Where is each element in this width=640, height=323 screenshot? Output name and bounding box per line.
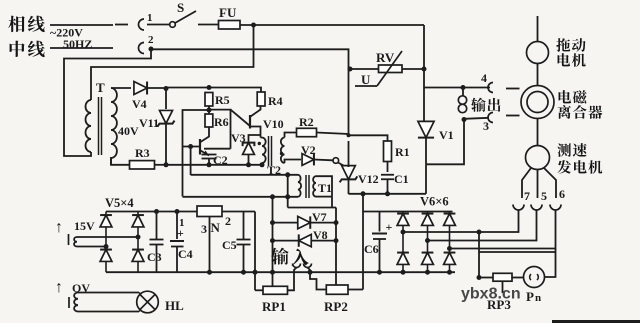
svg-text:C3: C3 <box>147 250 162 264</box>
wire phase lead <box>50 24 113 26</box>
svg-text:HL: HL <box>165 298 184 313</box>
varistor RV <box>379 65 403 73</box>
wire RP3 left lead <box>479 277 493 279</box>
svg-text:5: 5 <box>541 189 547 203</box>
svg-text:n: n <box>535 292 541 304</box>
svg-text:RP2: RP2 <box>324 299 348 314</box>
diode V6 upper 1 <box>402 212 404 215</box>
bridge V5 col1 <box>105 212 107 216</box>
diode V5 upper2 <box>137 212 139 216</box>
svg-text:↑: ↑ <box>55 219 63 236</box>
node rail1-V11 <box>164 162 169 167</box>
wire C2 to rail1 <box>208 159 210 166</box>
wire RP3 to Pn <box>512 277 524 279</box>
resistor R2 <box>297 128 317 136</box>
clutch lead dash bottom <box>506 115 520 117</box>
capacitor C1 <box>381 174 394 176</box>
node base tap <box>188 144 193 149</box>
wire RP2 right lead <box>348 289 363 291</box>
label 相线 (phase line) <box>8 16 24 32</box>
node C3 top <box>154 209 159 214</box>
clutch lead dash top <box>506 88 520 90</box>
cup contact 5 <box>531 205 542 211</box>
wire R5-R6 <box>208 106 210 114</box>
rail4 under T1 <box>288 207 336 209</box>
wire contact1 to switch <box>147 24 169 26</box>
diode V6 lower 2 <box>427 241 429 254</box>
transformer T1 left winding <box>298 175 301 197</box>
wire bottom wire corner up <box>425 164 427 194</box>
svg-text:V4: V4 <box>132 97 147 111</box>
svg-text:V6×6: V6×6 <box>420 195 449 209</box>
svg-text:2: 2 <box>225 214 231 228</box>
scan edge bottom right <box>552 320 640 323</box>
label 拖动电机 (drive motor) <box>556 38 570 52</box>
wire RV right to V1 column <box>402 68 424 70</box>
node output bottom <box>462 117 467 122</box>
wire V12 column <box>348 69 350 135</box>
wire link pulse-bottom to bus <box>362 194 364 212</box>
resistor R4 <box>257 92 265 106</box>
cup contact 7 <box>513 205 524 211</box>
svg-text:V2: V2 <box>301 143 316 157</box>
transformer T primary winding <box>86 100 91 152</box>
T1 link vertical <box>287 175 289 208</box>
node contact2 <box>149 47 154 52</box>
zener V3 <box>243 143 255 155</box>
contact 1 socket <box>139 19 144 30</box>
wire V1 to output terminal <box>426 120 464 164</box>
wire Pn right <box>545 252 556 277</box>
0V winding tick <box>68 297 70 308</box>
transformer T1 core <box>305 175 307 198</box>
wire secondary top to V4 <box>111 87 131 89</box>
wire phase drop <box>423 25 425 122</box>
winding 0V top lead <box>78 292 139 294</box>
node T1 link top <box>285 172 290 177</box>
wire contact2 to transformer primary bottom <box>64 49 151 156</box>
node V3 rail1 <box>246 162 251 167</box>
wire cup6 to bridge col3 <box>450 211 556 249</box>
wire cupB to RP2 <box>308 268 327 290</box>
cup contact 6 <box>550 205 561 211</box>
node T1 link mid <box>285 194 290 199</box>
svg-text:15V: 15V <box>74 219 95 233</box>
wire V3 bottom to rail1 <box>248 155 250 166</box>
winding 15V top lead <box>77 236 138 238</box>
wire T2 sec bottom to V2 <box>285 160 302 164</box>
wire bottom of pulse section <box>349 193 427 195</box>
wire V4 node down <box>165 88 167 109</box>
diode V5 lower2 <box>137 237 139 250</box>
svg-text:FU: FU <box>219 5 237 20</box>
label 输入 (input) <box>271 248 288 265</box>
clutch outer circle <box>521 86 554 119</box>
svg-text:V10: V10 <box>263 117 284 131</box>
transformer T2 secondary winding <box>281 138 285 164</box>
diode V7 <box>298 216 311 228</box>
winding 0V cap <box>74 293 78 312</box>
wire V4 to node <box>146 87 166 89</box>
diode V6 upper 2 <box>427 212 429 215</box>
transformer T2 primary winding <box>262 138 266 164</box>
resistor R6 <box>205 114 213 127</box>
potentiometer RP3 <box>493 273 512 281</box>
regulator N box <box>197 206 222 217</box>
diode V5 upper1 <box>100 215 112 227</box>
input cup B <box>304 264 312 268</box>
node pin3 bus <box>207 270 212 275</box>
svg-text:+: + <box>386 220 393 234</box>
capacitor C3 <box>156 212 158 240</box>
fuse FU <box>219 21 241 30</box>
node C6 bottom <box>377 270 382 275</box>
svg-text:↑: ↑ <box>55 279 63 296</box>
lamp HL <box>137 291 159 313</box>
svg-text:V3: V3 <box>231 131 246 145</box>
bridge V6 left vertical <box>362 212 364 290</box>
wire emitter-node link <box>204 148 231 150</box>
wire to contact 3 <box>464 118 489 119</box>
capacitor C5 <box>243 212 245 240</box>
wire V2 to gate circle <box>314 159 333 162</box>
node RV right <box>422 67 427 72</box>
wire V8 lead <box>273 240 300 242</box>
wire V11 to rail1 <box>165 123 167 165</box>
transistor Q1 emitter with arrow <box>201 151 210 156</box>
wire V1 bottom <box>425 138 427 165</box>
svg-text:T: T <box>96 80 105 95</box>
thyristor V12 <box>342 166 356 180</box>
resistor R1 <box>384 141 392 162</box>
wire RV left <box>350 68 379 70</box>
wire V8 right <box>311 240 337 242</box>
wire N out <box>222 211 255 213</box>
svg-text:R6: R6 <box>214 115 229 129</box>
svg-text:RP1: RP1 <box>262 299 286 314</box>
resistor R3 <box>130 161 155 169</box>
gate terminal circle <box>333 158 339 164</box>
wire R3 to rail1 <box>155 164 167 166</box>
node V4 out <box>164 86 169 91</box>
wire V7 lead <box>273 222 299 224</box>
node col2 tap <box>425 238 430 243</box>
RP3 wiper stub <box>502 281 504 293</box>
node 254 bus <box>253 270 258 275</box>
tach lead 5 <box>537 170 539 199</box>
varistor foot <box>355 85 377 87</box>
wire V7V8 right vertical RP2 wiper <box>335 208 337 286</box>
diode V8 <box>299 234 312 246</box>
contact 4 arc <box>488 83 493 93</box>
motor Pn circle <box>524 267 545 288</box>
wire switch to FU <box>198 24 218 26</box>
transistor Q1 collector <box>201 127 210 142</box>
wire N out drop <box>254 212 256 291</box>
transistor V10 emitter <box>251 127 261 138</box>
wire neutral lead <box>50 47 113 49</box>
tach lead 7 <box>522 168 531 198</box>
wire Pn top <box>479 251 556 253</box>
svg-text:C4: C4 <box>178 247 193 261</box>
wire C1 bottom <box>387 180 389 195</box>
wire V7 right <box>310 222 337 224</box>
wire V3 top link <box>249 135 261 143</box>
svg-text:R3: R3 <box>135 146 150 160</box>
node C4 top <box>175 209 180 214</box>
winding 15V bottom lead <box>77 246 106 248</box>
svg-text:1: 1 <box>147 12 153 24</box>
wire stub to contact 1 <box>115 24 128 26</box>
node col1 tap <box>401 230 406 235</box>
label 电磁离合器 (electromagnetic clutch) <box>559 90 572 103</box>
wire V12 bottom to bottom wire <box>348 179 350 195</box>
svg-text:C1: C1 <box>394 172 409 186</box>
svg-text:3: 3 <box>483 119 489 133</box>
wire cup5 to bridge col2 <box>428 211 537 241</box>
polarity dot T2 primary <box>258 142 261 145</box>
node output tap <box>461 85 466 90</box>
wire contact2 right <box>151 49 349 69</box>
rail3 <box>183 196 299 198</box>
svg-text:+: + <box>177 226 184 240</box>
output terminal circles <box>458 96 466 104</box>
wire V10 base diagonal <box>231 110 251 126</box>
node V8 right <box>334 238 339 243</box>
wire RP1 left lead <box>255 289 263 291</box>
diode V6 lower 1 <box>402 232 404 253</box>
wire tap to terminal <box>462 88 464 96</box>
wire control top rail <box>166 88 261 93</box>
wire cup7 to bridge col1 <box>403 211 519 233</box>
svg-text:ybx8.cn: ybx8.cn <box>461 286 521 303</box>
transistor V10 collector <box>251 106 261 117</box>
node 15V col1 <box>104 244 109 249</box>
node V8 left <box>270 238 275 243</box>
wire T2 sec top to R2 <box>285 133 297 138</box>
bridge V5 top bus <box>106 211 197 213</box>
transformer T secondary winding <box>111 88 117 158</box>
wire secondary bottom to R3 <box>111 157 129 165</box>
zener V11 <box>159 110 172 123</box>
node V6 lower 1 bottom <box>401 270 406 275</box>
switch S <box>170 22 176 28</box>
potentiometer RP1 <box>263 286 288 294</box>
svg-text:R4: R4 <box>268 94 283 108</box>
shaft clutch-tach <box>537 119 539 146</box>
capacitor C2 <box>202 154 217 156</box>
node junction top <box>251 23 256 28</box>
label 中线 (neutral line) <box>10 41 25 57</box>
diode V6 lower 3 <box>449 249 451 253</box>
svg-text:6: 6 <box>559 187 565 201</box>
svg-text:50HZ: 50HZ <box>63 37 92 51</box>
wire col1 line junction <box>477 230 482 235</box>
diode V2 <box>302 154 314 166</box>
svg-text:3: 3 <box>201 222 207 236</box>
wire Q1 base lead <box>183 146 201 148</box>
node C1 bottom <box>385 191 390 196</box>
node V7V8 left top <box>270 194 275 199</box>
svg-text:U: U <box>361 72 371 87</box>
tach lead 6 <box>544 168 556 198</box>
wire FU to top rail <box>240 24 424 26</box>
drive motor circle <box>527 42 549 64</box>
capacitor C6 electrolytic <box>379 212 381 232</box>
svg-text:R1: R1 <box>395 145 410 159</box>
svg-text:4: 4 <box>481 71 487 85</box>
clutch inner circle <box>527 92 548 113</box>
rail2 base feedback <box>191 174 298 176</box>
node V7 right <box>334 220 339 225</box>
wire rail1 <box>166 164 262 166</box>
transformer T core <box>98 97 100 155</box>
svg-text:RV: RV <box>376 50 395 65</box>
diode V4 <box>134 81 147 94</box>
transformer T1 right winding <box>313 176 316 196</box>
wire top rail drop to primary top <box>91 25 254 100</box>
15V winding tick <box>68 234 70 245</box>
wire motor shaft top <box>537 16 539 42</box>
wire base tap down to rail2 <box>190 147 192 176</box>
wire R5R6 junction left to feedback drop <box>183 110 210 197</box>
node RP3 left <box>477 275 482 280</box>
contact 2 socket <box>139 43 144 54</box>
wire output 4 <box>424 87 490 89</box>
svg-text:V5×4: V5×4 <box>105 196 134 210</box>
transformer T2 core <box>268 136 270 166</box>
wire V7V8 left vertical RP1 wiper <box>272 197 274 286</box>
bottom bus <box>106 271 455 273</box>
wire cupA to RP1 <box>288 268 297 291</box>
svg-text:7: 7 <box>524 189 530 203</box>
svg-text:P: P <box>526 289 534 304</box>
winding 0V bottom lead <box>78 311 139 313</box>
node C2 rail1 <box>207 162 212 167</box>
wire V10 emitter to T2 <box>261 137 263 139</box>
svg-text:C6: C6 <box>364 242 379 256</box>
node V6 lower 3 bottom <box>447 270 452 275</box>
wire V12 top <box>348 141 350 167</box>
node V7 left <box>270 220 275 225</box>
node RV left <box>348 67 353 72</box>
shaft motor-clutch <box>537 64 539 86</box>
input cup A <box>293 264 301 268</box>
node col3 tap <box>447 246 452 251</box>
label 输出 (output) <box>471 98 486 112</box>
wire T2 primary bottom <box>261 163 263 165</box>
svg-text:T1: T1 <box>318 181 332 195</box>
node V6 lower 2 bottom <box>425 270 430 275</box>
svg-text:V12: V12 <box>358 172 379 186</box>
T1 right bottom lead <box>316 196 332 198</box>
svg-text:C5: C5 <box>222 238 237 252</box>
diode V1 <box>418 121 434 137</box>
svg-text:N: N <box>211 220 221 235</box>
polarity dot T2 secondary <box>280 152 283 155</box>
node C5 bus <box>241 270 246 275</box>
resistor R5 <box>205 93 213 107</box>
transistor V10 base bar <box>249 115 251 129</box>
tach generator circle <box>526 146 550 170</box>
node R1 wire <box>347 133 351 137</box>
wire cup6 down to Pn loop <box>555 249 557 253</box>
node bus left join <box>270 270 275 275</box>
diode V6 upper 3 <box>449 212 451 215</box>
wire R1 to C1 <box>387 162 389 173</box>
svg-text:R2: R2 <box>299 115 314 129</box>
winding 15V cap <box>74 237 77 247</box>
label 测速发电机 (tacho generator) <box>557 143 571 156</box>
node 15V col2 <box>136 235 141 240</box>
wire RP3 riser <box>478 232 480 278</box>
contact 3 arc <box>488 113 493 123</box>
wire R5R6 junction right to V10 base <box>209 110 231 149</box>
wire R2 to V12 rail <box>317 133 349 136</box>
wire R1 top <box>349 135 388 141</box>
diode V5 lower1 <box>105 247 107 251</box>
node R5 top <box>207 85 212 90</box>
transistor Q1 base bar <box>199 139 201 155</box>
svg-text:40V: 40V <box>118 124 139 138</box>
svg-text:R5: R5 <box>215 93 230 107</box>
node R5/R6 junction <box>207 108 212 113</box>
gate diagonal to V12 <box>338 163 347 168</box>
potentiometer RP2 <box>326 285 348 294</box>
svg-text:2: 2 <box>148 34 154 46</box>
capacitor C4 electrolytic <box>176 212 178 240</box>
svg-text:V11: V11 <box>139 116 159 130</box>
svg-text:V1: V1 <box>439 128 454 142</box>
node T2 primary bottom <box>260 162 265 167</box>
lamp leads <box>139 293 141 295</box>
regulator pin3 <box>209 217 211 273</box>
bridge V6 top bus <box>363 211 453 213</box>
T1 right top lead <box>316 176 332 196</box>
node link <box>361 191 366 196</box>
svg-text:S: S <box>177 0 184 15</box>
